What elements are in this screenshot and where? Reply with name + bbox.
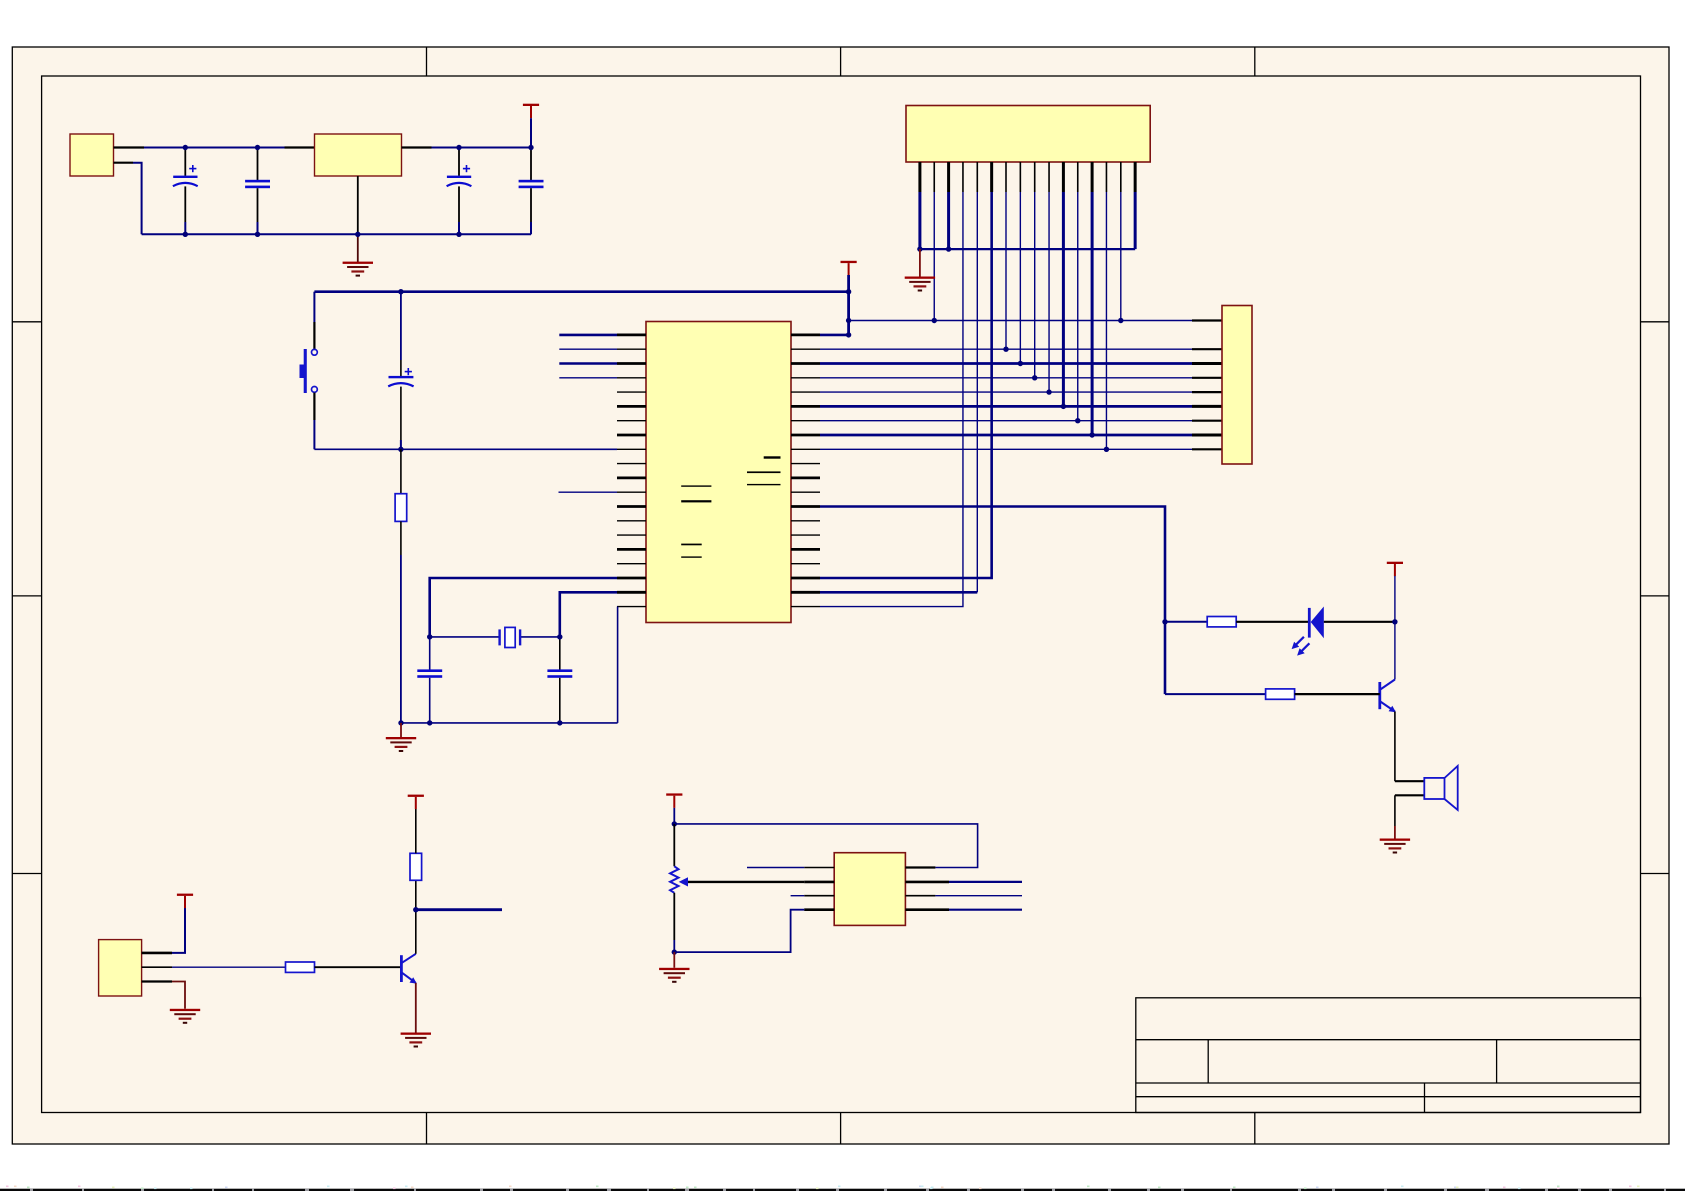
MCU left pins bbox=[617, 335, 646, 607]
header pin4 wire down to MCU pin20 bbox=[820, 192, 963, 607]
header pin6 wire down to MCU pin18 bbox=[820, 192, 992, 578]
wire pot wiper to module row2 bbox=[688, 881, 805, 883]
MCU internal text marks bbox=[681, 456, 780, 558]
pin S1 top bbox=[313, 322, 315, 349]
wire reset rail to MCU pin 9 bbox=[314, 448, 617, 450]
pin speaker bottom bbox=[1395, 794, 1424, 796]
pin R1 top wire bbox=[400, 449, 402, 493]
header J2 body bbox=[906, 106, 1150, 163]
pin J1-1 bbox=[114, 146, 145, 148]
capacitor C3 (electrolytic) bbox=[447, 148, 472, 235]
connector J3 body bbox=[1222, 306, 1252, 465]
bus wire row4 MCU to J3 bbox=[820, 377, 1192, 379]
module dangling wire left row1 bbox=[747, 867, 804, 869]
wire junction down to Q2 collector bbox=[1394, 622, 1396, 680]
wire to R2 bbox=[1165, 621, 1207, 623]
ground symbol speaker bbox=[1380, 839, 1410, 854]
power VCC symbol (MCU area) bbox=[841, 261, 857, 276]
pin J4-1 bbox=[142, 952, 172, 955]
wire MCU pin19 to crystal right bbox=[560, 592, 617, 637]
wire speaker bottom to ground bbox=[1394, 795, 1396, 826]
pin R4 to Q1 base bbox=[315, 966, 402, 968]
module dangling wire left row3 bbox=[791, 895, 805, 897]
push button S1 bbox=[300, 349, 318, 393]
resistor R3 (base) bbox=[1266, 689, 1295, 699]
bus wire row8 MCU to J3 bbox=[820, 434, 1192, 437]
wire base branch bbox=[1165, 693, 1266, 695]
wire J4-2 to R4 bbox=[172, 966, 286, 968]
header pin12 wire bbox=[1077, 192, 1079, 421]
junction dot LED branch bbox=[1162, 619, 1167, 624]
VCC rail wire to connector J3 bbox=[849, 320, 1192, 322]
pin R2 to LED bbox=[1236, 621, 1308, 623]
module dangling wires right bbox=[949, 881, 1022, 883]
wire MCU pin13 to LED branch bbox=[820, 507, 1165, 695]
junction dot collector node bbox=[1392, 619, 1397, 624]
junction dot reset rail / R1 bbox=[398, 447, 403, 452]
ground rail wire bbox=[142, 233, 531, 235]
resistor R2 (LED series) bbox=[1207, 617, 1236, 627]
header pin3 wire to ground rail bbox=[947, 192, 950, 249]
potentiometer RP1 bbox=[670, 824, 688, 952]
pin LED to VCC branch bbox=[1324, 621, 1395, 623]
header pin7 wire bbox=[1005, 192, 1007, 349]
connector J1 (power input) bbox=[70, 134, 114, 176]
capacitor C4 bbox=[519, 148, 544, 235]
pin R3 to Q2 base bbox=[1295, 693, 1380, 695]
connector J3 pin stubs bbox=[1192, 321, 1222, 450]
ground stub header bbox=[919, 249, 921, 276]
power VCC symbol (Q1) bbox=[408, 795, 424, 810]
wire button to bottom rail bbox=[313, 420, 315, 449]
wire VCC down to MCU pin1 row bbox=[847, 275, 850, 335]
wire MCU pin1 (VCC) row bbox=[820, 334, 849, 337]
junction dots header-to-bus diagonal bbox=[1003, 347, 1109, 452]
module U3 body bbox=[834, 853, 905, 926]
junction dot pot bottom bbox=[672, 949, 677, 954]
ground symbol osc bbox=[386, 737, 416, 752]
module pin stubs right bbox=[905, 868, 949, 910]
wire J1-2 down to ground rail bbox=[133, 163, 142, 235]
pin J4-2 bbox=[142, 966, 172, 968]
wire VCC down bbox=[673, 808, 675, 824]
wire J4-1 to VCC bbox=[172, 906, 185, 953]
capacitor C2 bbox=[245, 148, 270, 235]
junction dots header ground rail bbox=[917, 246, 922, 251]
connector J4 body bbox=[99, 940, 142, 996]
wire VCC to rail bbox=[530, 118, 532, 147]
wire left branch down to button bbox=[313, 292, 315, 322]
wire VCC rail to MCU area bbox=[314, 290, 848, 293]
transistor Q1 bbox=[401, 954, 416, 984]
wire VCC over to module pin1 bbox=[674, 824, 977, 868]
ground stub osc bbox=[400, 723, 402, 737]
header pin15 wire to VCC rail bbox=[1120, 192, 1122, 321]
MCU U2 body bbox=[646, 322, 791, 623]
header pin13 wire bbox=[1091, 192, 1094, 435]
junction dot VCC/reset rail bbox=[846, 289, 851, 294]
junction dots crystal bbox=[398, 634, 562, 725]
wire J4-3 to ground bbox=[172, 982, 185, 1009]
bus wire row3 MCU to J3 bbox=[820, 362, 1192, 365]
wire MCU pin18 to crystal left bbox=[430, 578, 617, 637]
bus wire row2 MCU to J3 bbox=[820, 348, 1192, 350]
wire crystal right bbox=[520, 636, 560, 638]
junction dot VCC rail / C5 bbox=[398, 289, 403, 294]
pin J4-3 bbox=[142, 980, 172, 982]
module pin stubs left bbox=[804, 868, 834, 910]
wire VCC down to junction bbox=[1394, 576, 1396, 622]
pin J1-2 bbox=[114, 162, 134, 164]
ground stub under U1 bbox=[357, 234, 359, 262]
osc ground rail wire bbox=[401, 722, 618, 724]
MCU left dangling wires rows 1-4 bbox=[559, 334, 617, 337]
header pin1 wire to ground rail bbox=[918, 192, 921, 249]
wire J1 to C1 to U1 bbox=[144, 147, 285, 149]
pin U1 ground bbox=[357, 176, 359, 234]
speaker LS1 bbox=[1424, 766, 1457, 810]
header pin9 wire bbox=[1034, 192, 1036, 378]
power VCC symbol (LED) bbox=[1387, 562, 1403, 577]
voltage regulator U1 bbox=[315, 134, 402, 176]
crystal Y1 bbox=[500, 627, 520, 647]
resistor R1 (reset pulldown) bbox=[395, 494, 407, 522]
power VCC symbol (J4) bbox=[177, 894, 193, 909]
header pin14 wire bbox=[1105, 192, 1107, 449]
ground stub pot bbox=[673, 952, 675, 968]
wire MCU pin20 to osc ground rail bbox=[617, 607, 619, 723]
capacitor C6 (osc left) bbox=[417, 637, 442, 723]
header pin16 wire to ground rail bbox=[1134, 192, 1137, 249]
bus wire row6 MCU to J3 bbox=[820, 405, 1192, 408]
junction dots power rail bbox=[183, 145, 534, 237]
LED D1 bbox=[1292, 607, 1324, 656]
wire Q2 emitter down bbox=[1394, 712, 1396, 782]
header pin2 wire to VCC rail bbox=[933, 192, 935, 321]
wire module row4 to pot bottom bbox=[674, 910, 804, 952]
ground symbol under U1 bbox=[343, 262, 373, 277]
bottom screen-edge artifact strip bbox=[0, 1186, 1685, 1191]
junction dot VCC/module bbox=[672, 821, 677, 826]
bus wire row5 MCU to J3 bbox=[820, 391, 1192, 393]
ground symbol Q1 bbox=[401, 1033, 431, 1048]
MCU right pins bbox=[791, 335, 820, 607]
header pin5 wire down to MCU pin19 bbox=[976, 192, 978, 592]
power VCC symbol (top-left) bbox=[523, 104, 539, 119]
pin U1 input bbox=[285, 146, 315, 148]
ground symbol pot bbox=[659, 968, 689, 983]
header pin8 wire bbox=[1019, 192, 1021, 364]
wire crystal left bbox=[430, 636, 500, 638]
wire R5 to VCC bbox=[415, 809, 417, 853]
capacitor C7 (osc right) bbox=[547, 637, 572, 723]
wire collector output bbox=[416, 908, 502, 911]
header pin11 wire bbox=[1062, 192, 1065, 406]
header pin10 wire bbox=[1048, 192, 1050, 392]
pin speaker top bbox=[1395, 780, 1424, 782]
wire U1 out to VCC bbox=[432, 147, 532, 149]
title block bbox=[1136, 998, 1641, 1113]
resistor R4 (base series) bbox=[286, 962, 315, 972]
transistor Q2 bbox=[1380, 680, 1396, 713]
wire R1 to crystal ground rail bbox=[400, 521, 402, 555]
bus wire row7 MCU to J3 bbox=[820, 420, 1192, 422]
ground symbol header bbox=[905, 277, 935, 292]
wire Q1 emitter to ground bbox=[415, 983, 417, 1033]
ground symbol J4 bbox=[170, 1009, 200, 1024]
junction dot collector output bbox=[413, 907, 418, 912]
bus wire row9 MCU to J3 bbox=[820, 448, 1192, 450]
resistor R5 (collector pullup) bbox=[410, 853, 422, 880]
header ground rail wire bbox=[920, 248, 1135, 250]
MCU left dangling wire row 12 bbox=[559, 491, 618, 493]
pin U1 output bbox=[402, 146, 432, 148]
capacitor C1 (electrolytic) bbox=[173, 148, 198, 235]
wire Q1 collector up bbox=[415, 880, 417, 954]
pin S1 bottom bbox=[313, 393, 315, 420]
capacitor C5 (electrolytic reset) bbox=[388, 292, 413, 450]
header J2 pin stubs bbox=[920, 162, 1135, 192]
power VCC symbol (module) bbox=[666, 793, 682, 808]
